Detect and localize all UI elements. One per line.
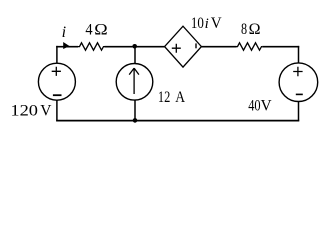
svg-text:8: 8 [241,21,247,38]
svg-text:10: 10 [191,15,204,32]
wire 12A source bottom to node B [134,100,136,120]
wire top-left horizontal [56,46,78,48]
V2 plus sign [293,67,302,76]
wire from R1 to node A [105,46,165,48]
wire left vertical upper [56,46,58,63]
dependent source U1 diamond [165,26,202,67]
wire right vertical upper [298,46,300,63]
svg-text:Ω: Ω [249,21,261,38]
svg-text:12: 12 [158,89,170,106]
svg-text:4: 4 [85,21,92,38]
dependent source plus sign [172,44,181,53]
V2 minus sign [296,93,303,95]
dependent source minus mark [195,43,197,48]
node B junction dot bottom [133,118,138,123]
wire diamond to R2 [201,46,236,48]
svg-text:40: 40 [248,98,260,115]
V1 minus sign [53,94,62,96]
voltage source V2 circle [279,63,318,102]
svg-text:i: i [205,16,209,32]
current source I1 circle [116,64,153,101]
svg-text:V: V [211,15,222,32]
svg-text:A: A [175,89,185,106]
wire left vertical lower [56,100,58,121]
V1 plus sign [52,67,61,76]
voltage source V1 circle [38,63,75,100]
wire right vertical lower [298,102,300,122]
wire node A to 12A source top [134,46,136,63]
resistor R1 4ohm zigzag [78,43,105,50]
svg-text:V: V [40,103,52,120]
bottom wire [56,120,299,122]
svg-text:120: 120 [10,103,38,120]
wire R2 to top-right corner [262,46,299,48]
current arrow i [63,42,69,49]
resistor R2 8ohm zigzag [237,43,263,50]
svg-text:V: V [261,98,272,115]
node A junction dot top [132,44,137,49]
svg-text:Ω: Ω [94,21,108,38]
svg-text:i: i [62,24,66,41]
I1 arrow up [129,68,139,94]
